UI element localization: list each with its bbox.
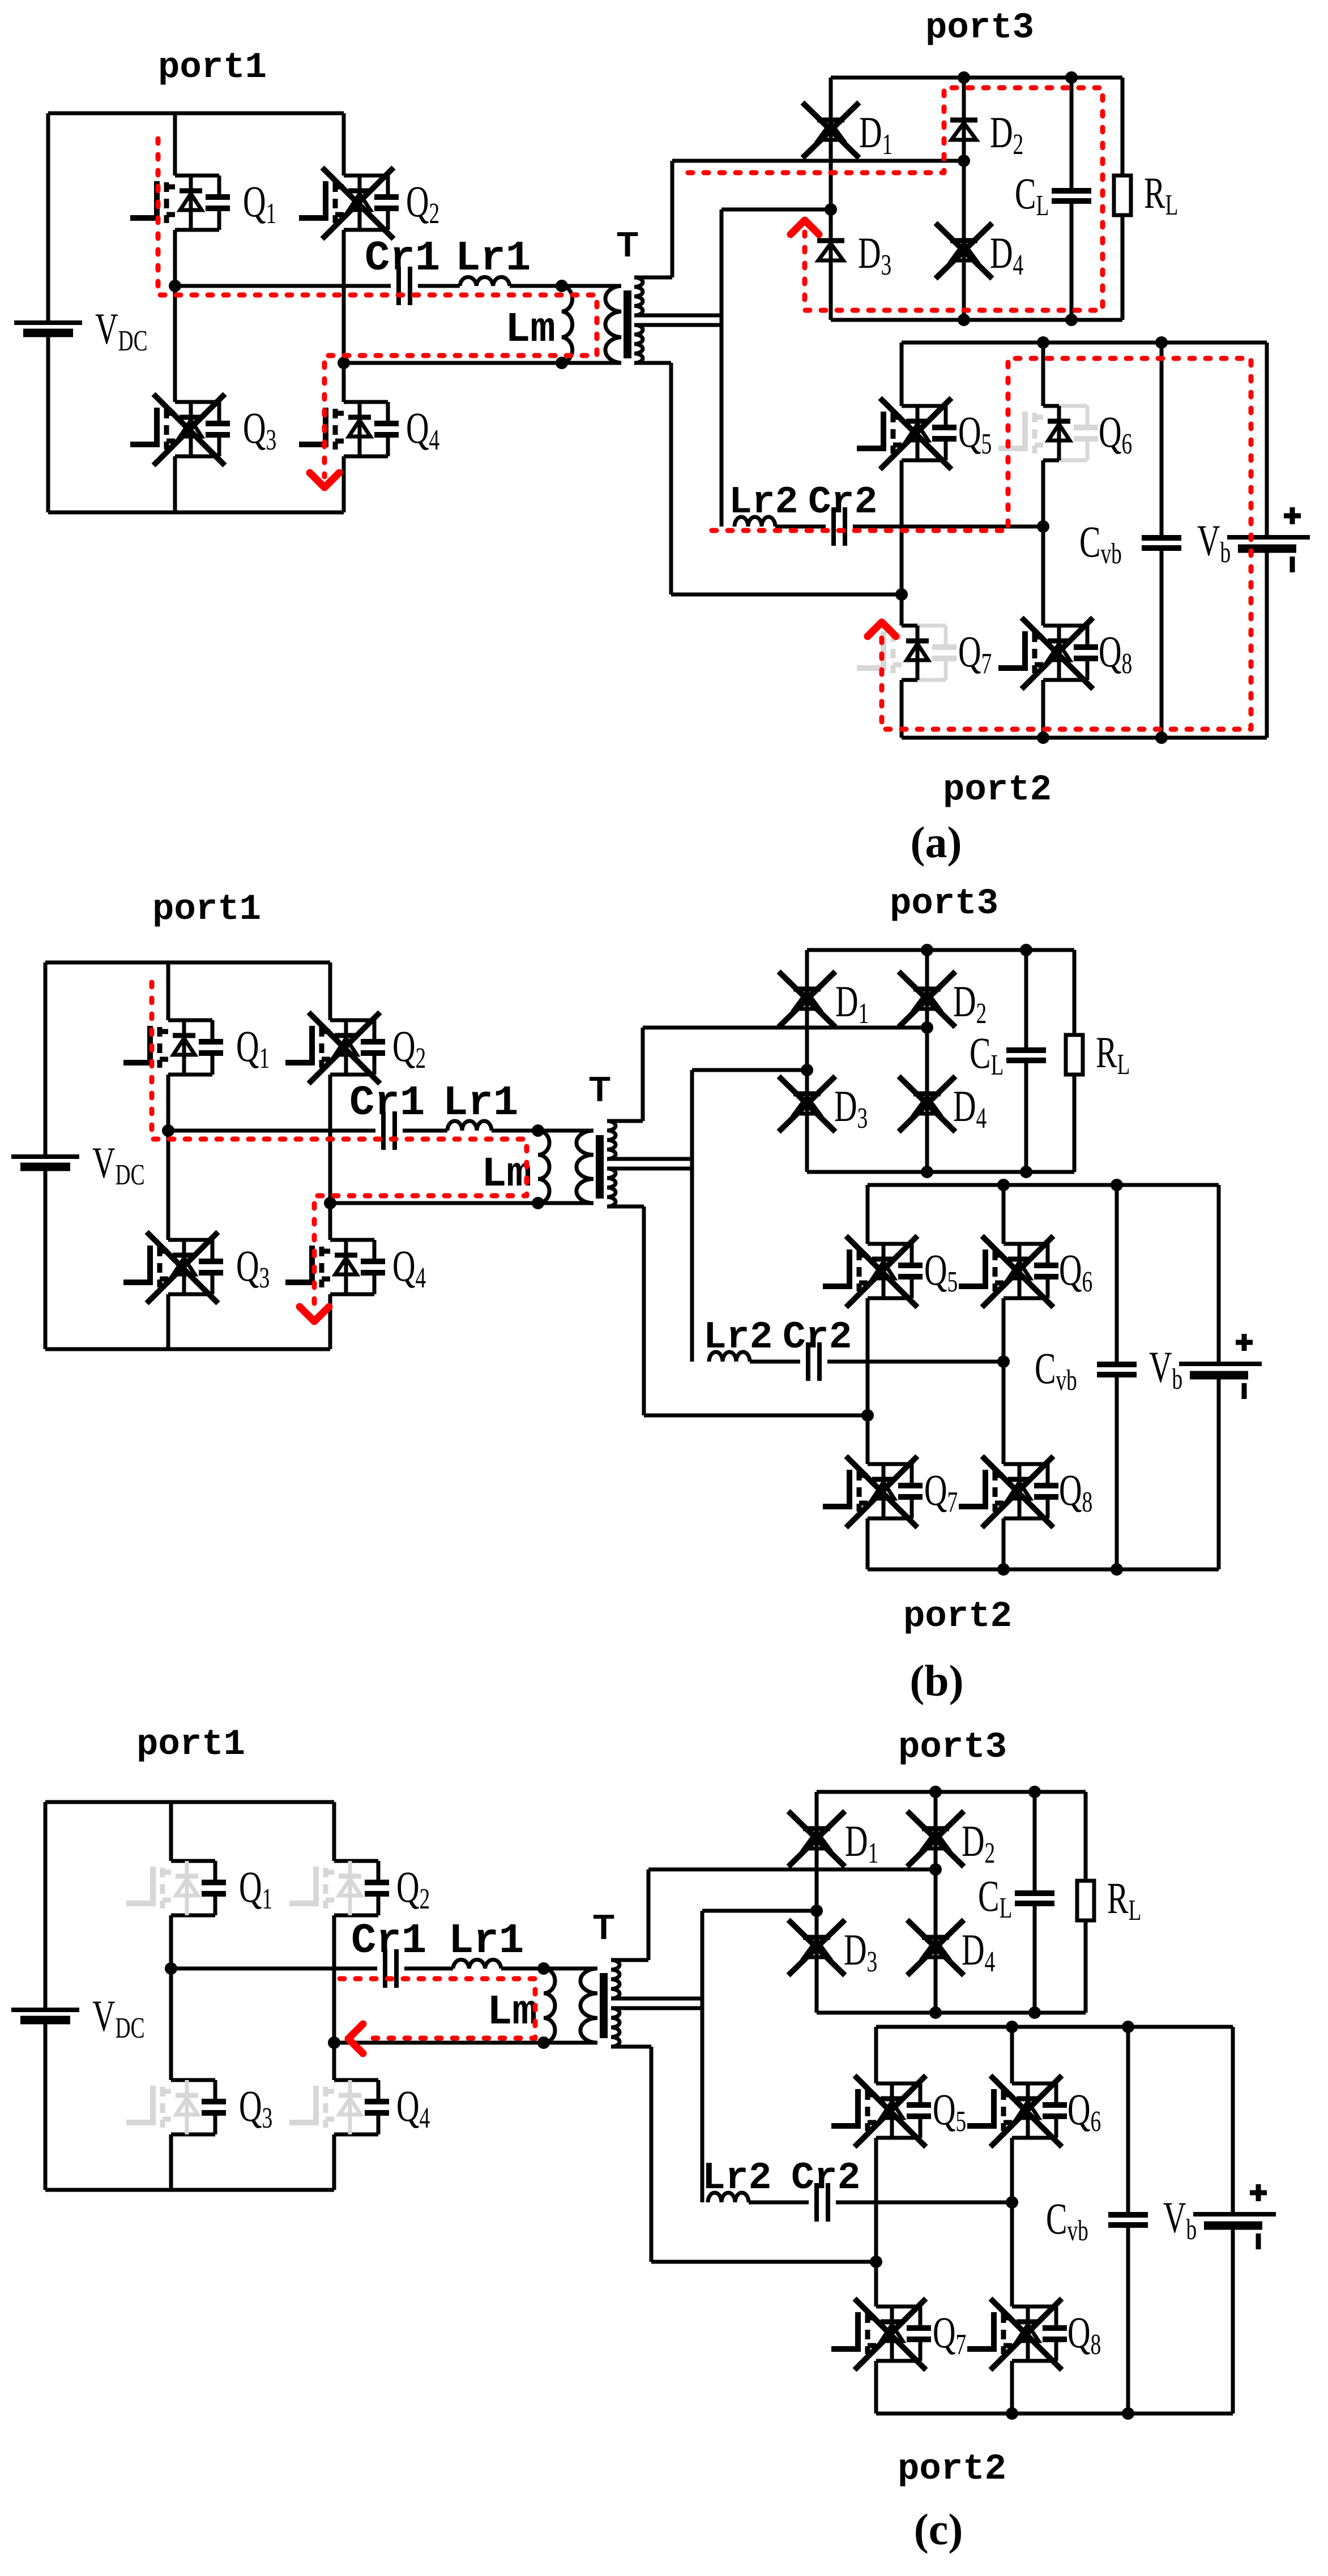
wire: port2 bottom rail (b) xyxy=(868,1568,1219,1572)
label T (a) xyxy=(617,225,638,264)
label D1 (a) xyxy=(859,108,893,160)
wire: bridge right leg (a) xyxy=(342,113,346,512)
node: port3 top rail / CL leg (a) xyxy=(1065,71,1078,84)
port1 label (c) xyxy=(136,1725,245,1765)
label D2 (b) xyxy=(953,977,987,1029)
wire: port1 top rail (c) xyxy=(45,1800,334,1804)
label Q6 (a) xyxy=(1099,407,1132,460)
svg-text:(a): (a) xyxy=(911,818,962,867)
label - terminal (a) xyxy=(1290,557,1295,572)
label VDC (b) xyxy=(92,1138,145,1191)
wire: VDC left branch lower (a) xyxy=(46,333,50,512)
wire: Lr2 to Cr2 (a) xyxy=(775,525,826,529)
svg-text:Cr2: Cr2 xyxy=(808,481,877,524)
label T (b) xyxy=(589,1070,610,1109)
node: D1-D3 leg AC input (b) xyxy=(801,1064,813,1076)
svg-text:Cr2: Cr2 xyxy=(791,2156,860,2200)
battery Vb (c) xyxy=(1193,2027,1276,2414)
wire: port2 leg Q5-Q7 (c) xyxy=(874,2027,878,2414)
inductor Lr2 (c) xyxy=(708,2193,749,2202)
node: port3 top rail / D2 leg (a) xyxy=(958,71,970,84)
capacitor Cr2 (c) xyxy=(817,2183,828,2222)
svg-text:T: T xyxy=(617,225,638,264)
label Cvb (a) xyxy=(1079,517,1122,570)
svg-text:Lr1: Lr1 xyxy=(449,1918,524,1965)
wire: Cr1 to Lr1 (c) xyxy=(404,1967,453,1971)
label Q6 (b) xyxy=(1059,1245,1092,1298)
wire: secondary2 bottom to port2 leg junction (a) xyxy=(634,363,902,594)
label Q2 (b) xyxy=(392,1021,426,1074)
transistor Q4 (a) xyxy=(299,402,399,456)
node: port2 bottom rail / Q8 leg (a) xyxy=(1037,731,1049,744)
label Lm (b) xyxy=(481,1151,532,1199)
resistor RL (b) xyxy=(1066,950,1083,1172)
wire: bridge right leg (c) xyxy=(332,1802,336,2190)
label D4 (b) xyxy=(953,1081,987,1134)
transistor Q2 (a) xyxy=(299,168,399,239)
label D2 (a) xyxy=(990,108,1023,160)
node: port2 bottom rail / Q8 leg (c) xyxy=(1006,2407,1018,2420)
port3 label (a) xyxy=(925,8,1034,49)
node: bridge mid-left (a) xyxy=(169,280,181,292)
transistor Q6 (a) xyxy=(998,406,1098,460)
transistor Q1 (a) xyxy=(130,176,230,230)
wire: VDC left branch upper (b) xyxy=(44,962,48,1157)
wire: bridge mid-left node to Cr1 (b) xyxy=(168,1129,375,1133)
wire: port2 top rail (a) xyxy=(902,341,1267,345)
capacitor Cr1 (b) xyxy=(383,1111,395,1150)
wire: Cr2 to Q6-Q8 leg (c) xyxy=(836,2201,1012,2205)
label Q3 (b) xyxy=(236,1241,270,1294)
port2 label (c) xyxy=(898,2449,1006,2490)
label T (c) xyxy=(593,1908,614,1947)
wire: port3 leg D1-D3 (a) xyxy=(829,78,833,320)
transformer T primary winding (a) xyxy=(605,286,621,363)
svg-text:port3: port3 xyxy=(890,884,998,925)
port3 label (c) xyxy=(898,1727,1007,1768)
transistor Q8 (b) xyxy=(959,1456,1058,1527)
label CL (b) xyxy=(970,1028,1004,1081)
node: bridge mid-right (b) xyxy=(324,1197,336,1209)
label Q3 (c) xyxy=(239,2081,272,2134)
transformer secondary winding 2 (c) xyxy=(611,2008,620,2047)
wire: port3 bottom rail (c) xyxy=(817,2011,1086,2015)
label Lr2 (c) xyxy=(702,2156,771,2200)
label Cr2 (b) xyxy=(783,1316,852,1359)
label Q4 (c) xyxy=(396,2081,430,2134)
wire: port2 leg Q6-Q8 (b) xyxy=(1002,1185,1006,1569)
wire: port3 leg D2-D4 (c) xyxy=(934,1792,938,2013)
wire: bridge left leg (a) xyxy=(173,113,177,512)
svg-text:port3: port3 xyxy=(898,1727,1007,1768)
transformer core (c) xyxy=(600,1973,608,2038)
node: port3 bottom rail / CL leg (c) xyxy=(1028,2006,1041,2019)
caption (b) xyxy=(909,1656,963,1705)
label VDC (c) xyxy=(92,1991,145,2044)
wire: shared vertical to port3/Lr2 (c) xyxy=(701,1911,704,2202)
svg-text:Cr2: Cr2 xyxy=(783,1316,852,1359)
diode D4 (c) xyxy=(907,1920,964,1975)
port3 label (b) xyxy=(890,884,998,925)
transistor Q7 (c) xyxy=(831,2299,931,2370)
label Cr2 (a) xyxy=(808,481,877,524)
label Q4 (a) xyxy=(406,403,439,456)
label Q3 (a) xyxy=(243,403,276,456)
wire: port2 bottom rail (a) xyxy=(902,736,1267,740)
transistor Q7 (b) xyxy=(823,1456,923,1527)
label Lr1 (b) xyxy=(443,1080,518,1127)
current path: port3 rectifier loop (a) xyxy=(688,88,1103,310)
svg-text:Cr1: Cr1 xyxy=(351,1918,426,1965)
current path: port1 loop Q1-Cr1-Lr1-Lm-Q4 (a) xyxy=(158,139,597,477)
node: primary top junction (a) xyxy=(556,280,568,292)
node: bridge mid-left (c) xyxy=(165,1962,177,1975)
diode D3 (c) xyxy=(788,1920,845,1975)
label Q7 (b) xyxy=(924,1465,958,1518)
label Lr2 (a) xyxy=(729,481,798,524)
svg-text:(c): (c) xyxy=(914,2505,963,2554)
caption (c) xyxy=(914,2505,963,2554)
node: port3 top rail / D2 leg (b) xyxy=(921,944,933,956)
transistor Q8 (a) xyxy=(998,618,1098,689)
diode D1 (b) xyxy=(779,972,835,1027)
label CL (a) xyxy=(1015,169,1049,221)
node: port3 bottom rail / D2 leg (a) xyxy=(958,314,970,326)
transistor Q2 (c) xyxy=(289,1861,389,1915)
label D4 (a) xyxy=(990,228,1023,281)
label Cvb (c) xyxy=(1046,2194,1088,2246)
node: D1-D3 leg AC input (a) xyxy=(825,203,837,216)
label Q6 (c) xyxy=(1067,2085,1101,2137)
node: primary bottom junction (b) xyxy=(532,1197,544,1209)
wire: bridge mid-right node to transformer primary bottom (c) xyxy=(334,2041,597,2045)
current path: port2 loop (a) xyxy=(712,358,1251,729)
label Cr2 (c) xyxy=(791,2156,860,2200)
label D2 (c) xyxy=(962,1816,995,1869)
wire: port2 leg Q5-Q7 (a) xyxy=(900,343,904,738)
wire: port3 leg D1-D3 (c) xyxy=(815,1792,819,2013)
wire: to port3 D1-D3 junction (a) xyxy=(721,208,831,212)
svg-text:Cr1: Cr1 xyxy=(365,235,440,283)
wire: port3 leg D2-D4 (a) xyxy=(962,78,966,320)
current path arrow down (b) xyxy=(300,1307,329,1321)
wire: bridge mid-right node to transformer primary bottom (b) xyxy=(330,1201,593,1205)
transformer secondary winding 1 (c) xyxy=(611,1960,620,1999)
label RL (b) xyxy=(1096,1028,1130,1080)
capacitor Cvb (b) xyxy=(1097,1185,1137,1569)
label Q4 (b) xyxy=(392,1241,426,1294)
wire: secondary1 top to port3 D2 junction (b) xyxy=(607,1028,927,1121)
wire: Lr2 to Cr2 (c) xyxy=(749,2201,809,2205)
label Vb (b) xyxy=(1149,1342,1182,1395)
battery VDC (a) xyxy=(14,323,82,333)
node: port2 top rail / Cvb leg (c) xyxy=(1122,2021,1134,2033)
wire: port2 top rail (c) xyxy=(876,2025,1233,2029)
node: D2 leg AC input (b) xyxy=(921,1021,933,1034)
transformer core (b) xyxy=(596,1135,604,1199)
svg-text:port2: port2 xyxy=(903,1597,1012,1637)
node: port2 top rail / Cvb leg (a) xyxy=(1155,336,1168,349)
svg-text:Lr2: Lr2 xyxy=(702,2156,771,2200)
transistor Q4 (c) xyxy=(289,2080,389,2134)
label Q8 (c) xyxy=(1067,2308,1101,2360)
wire: Cr2 to Q6-Q8 leg (a) xyxy=(853,525,1043,529)
label Q5 (c) xyxy=(933,2085,966,2137)
label D1 (b) xyxy=(835,977,869,1029)
wire: secondary1 bottom stub (a) xyxy=(634,314,721,318)
label + terminal (b) xyxy=(1236,1334,1253,1351)
current path arrow up port2 (a) xyxy=(868,622,896,636)
svg-text:Lm: Lm xyxy=(505,306,556,354)
battery Vb (a) xyxy=(1227,343,1310,738)
wire: secondary1 bottom stub (b) xyxy=(607,1157,692,1161)
node: port3 bottom rail / CL leg (b) xyxy=(1020,1166,1032,1178)
label Q2 (a) xyxy=(406,177,439,229)
transistor Q6 (c) xyxy=(967,2076,1067,2147)
wire: secondary1 top to port3 D2 junction (c) xyxy=(611,1869,936,1960)
node: port3 top rail / CL leg (b) xyxy=(1020,944,1032,956)
node: port3 bottom rail / D2 leg (c) xyxy=(929,2006,942,2019)
current path arrow down (a) xyxy=(310,473,339,487)
port2 label (a) xyxy=(943,770,1052,811)
label Q5 (a) xyxy=(958,407,992,460)
transistor Q5 (c) xyxy=(831,2076,931,2147)
node: port3 top rail / D2 leg (c) xyxy=(929,1786,942,1798)
label - terminal (b) xyxy=(1242,1383,1247,1399)
transistor Q4 (b) xyxy=(285,1240,385,1294)
svg-text:port2: port2 xyxy=(943,770,1052,811)
node: D2 leg AC input (a) xyxy=(958,155,970,167)
diode D3 (a) xyxy=(817,241,844,260)
inductor Lr1 (b) xyxy=(447,1121,492,1131)
label D4 (c) xyxy=(962,1925,995,1978)
node: bridge mid-right (a) xyxy=(338,357,350,369)
svg-text:port1: port1 xyxy=(152,889,261,930)
svg-text:port1: port1 xyxy=(136,1725,245,1765)
diode D1 (a) xyxy=(802,102,859,158)
node: port2 top rail / Q6 leg (b) xyxy=(997,1179,1010,1191)
node: Q5-Q7 mid junction (c) xyxy=(870,2256,882,2268)
label Q1 (a) xyxy=(243,177,276,229)
wire: bridge left leg (c) xyxy=(169,1802,173,2190)
node: bridge mid-left (b) xyxy=(162,1124,174,1137)
wire: shared vertical to port3/Lr2 (b) xyxy=(690,1070,694,1362)
transistor Q5 (b) xyxy=(823,1236,923,1307)
wire: bridge right leg (b) xyxy=(328,962,332,1349)
node: port2 bottom rail / Cvb leg (a) xyxy=(1155,731,1168,744)
wire: port3 bottom rail (a) xyxy=(831,318,1122,322)
label Q5 (b) xyxy=(924,1245,958,1298)
transformer secondary winding 2 (a) xyxy=(634,325,643,363)
resistor RL (a) xyxy=(1114,78,1131,320)
transformer T primary winding (c) xyxy=(580,1969,597,2043)
wire: shared vertical to port3/Lr2 (a) xyxy=(720,209,724,527)
svg-text:port1: port1 xyxy=(158,48,267,88)
wire: port3 leg D1-D3 (b) xyxy=(805,950,809,1172)
wire: secondary2 top stub (b) xyxy=(607,1167,692,1171)
wire: Lr1 to transformer primary top (a) xyxy=(510,284,621,288)
capacitor CL (c) xyxy=(1015,1792,1054,2013)
caption (a) xyxy=(911,818,962,867)
label Cr1 (c) xyxy=(351,1918,426,1965)
svg-text:(b): (b) xyxy=(909,1656,963,1705)
label Q1 (c) xyxy=(239,1862,272,1915)
node: Q6-Q8 mid junction (a) xyxy=(1037,520,1049,533)
diode D4 (a) xyxy=(936,223,992,279)
svg-text:Lr1: Lr1 xyxy=(443,1080,518,1127)
transistor Q1 (c) xyxy=(126,1861,226,1915)
current path: port1 loop (b) xyxy=(152,982,527,1313)
current path: resonant tank loop (c) xyxy=(340,1979,535,2038)
wire: to port3 D1-D3 junction (c) xyxy=(702,1909,817,1913)
label Q8 (a) xyxy=(1099,627,1132,679)
node: D1-D3 leg AC input (c) xyxy=(810,1905,823,1917)
transformer core (a) xyxy=(624,290,631,358)
transistor Q6 (b) xyxy=(959,1236,1058,1307)
label - terminal (c) xyxy=(1256,2233,1261,2249)
wire: Cr1 to Lr1 (a) xyxy=(418,284,460,288)
wire: port2 leg Q5-Q7 (b) xyxy=(866,1185,870,1569)
transformer secondary winding 1 (b) xyxy=(607,1121,616,1159)
wire: port1 bottom rail (b) xyxy=(45,1347,330,1351)
capacitor Cr2 (b) xyxy=(808,1342,819,1381)
node: Q6-Q8 mid junction (b) xyxy=(997,1355,1010,1368)
battery Vb (b) xyxy=(1179,1185,1262,1569)
node: port2 bottom rail / Cvb leg (b) xyxy=(1111,1563,1123,1576)
wire: Lr1 to transformer primary top (b) xyxy=(492,1129,593,1133)
diode D2 (c) xyxy=(907,1811,964,1867)
label Cvb (b) xyxy=(1035,1343,1077,1396)
wire: bridge mid-left node to Cr1 (a) xyxy=(175,284,391,288)
svg-text:Lm: Lm xyxy=(487,1989,537,2036)
capacitor Cr1 (a) xyxy=(399,267,410,305)
label + terminal (a) xyxy=(1284,507,1301,524)
svg-text:Lr2: Lr2 xyxy=(729,481,798,524)
transformer secondary winding 2 (b) xyxy=(607,1169,616,1206)
node: Q5-Q7 mid junction (a) xyxy=(895,588,908,601)
wire: Lr2 to Cr2 (b) xyxy=(750,1360,800,1364)
node: Q5-Q7 mid junction (b) xyxy=(861,1409,874,1422)
svg-text:T: T xyxy=(593,1908,614,1947)
wire: secondary1 top to port3 D2 junction (a) xyxy=(634,161,964,277)
node: primary bottom junction (c) xyxy=(537,2036,550,2049)
inductor Lm (b) xyxy=(538,1131,549,1203)
transistor Q8 (c) xyxy=(967,2299,1067,2370)
battery VDC (c) xyxy=(11,2010,79,2020)
wire: port3 top rail (c) xyxy=(817,1790,1086,1794)
diode D2 (b) xyxy=(899,972,955,1027)
capacitor Cr1 (c) xyxy=(385,1949,396,1988)
wire: port3 bottom rail (b) xyxy=(807,1170,1074,1174)
transistor Q7 (a) xyxy=(857,626,956,680)
capacitor Cvb (a) xyxy=(1142,343,1181,738)
current path arrow left (c) xyxy=(348,2024,363,2053)
label Q7 (a) xyxy=(958,627,992,679)
label Lm (c) xyxy=(487,1989,537,2036)
label Lr2 (b) xyxy=(703,1316,772,1359)
port1 label (b) xyxy=(152,889,261,930)
wire: secondary2 top stub (a) xyxy=(634,323,721,327)
inductor Lm (c) xyxy=(544,1969,555,2043)
node: primary top junction (b) xyxy=(532,1124,544,1137)
label Vb (a) xyxy=(1197,516,1231,568)
wire: Lr1 to transformer primary top (c) xyxy=(501,1967,597,1971)
wire: port1 bottom rail (a) xyxy=(48,511,344,515)
wire: port3 leg D2-D4 (b) xyxy=(925,950,929,1172)
transistor Q5 (a) xyxy=(857,398,956,469)
label Cr1 (b) xyxy=(349,1080,425,1127)
label Q8 (b) xyxy=(1059,1465,1092,1518)
diode D1 (c) xyxy=(788,1811,845,1867)
label Q1 (b) xyxy=(236,1021,270,1074)
port2 label (b) xyxy=(903,1597,1012,1637)
transistor Q2 (b) xyxy=(285,1012,385,1084)
wire: VDC left branch lower (c) xyxy=(44,2020,48,2190)
wire: Cr1 to Lr1 (b) xyxy=(403,1129,447,1133)
wire: bridge mid-left node to Cr1 (c) xyxy=(171,1967,377,1971)
transistor Q3 (b) xyxy=(123,1232,223,1303)
label CL (c) xyxy=(978,1871,1012,1924)
wire: secondary1 bottom stub (c) xyxy=(611,1997,702,2001)
node: port3 top rail / CL leg (c) xyxy=(1028,1786,1041,1798)
capacitor CL (a) xyxy=(1052,78,1091,320)
transistor Q3 (c) xyxy=(126,2080,226,2134)
wire: port2 top rail (b) xyxy=(868,1183,1219,1187)
wire: bridge mid-right node to transformer primary bottom (a) xyxy=(344,361,621,365)
label VDC (a) xyxy=(95,304,148,357)
label Lr1 (a) xyxy=(455,235,531,283)
transformer T primary winding (b) xyxy=(577,1131,593,1203)
capacitor CL (b) xyxy=(1006,950,1046,1172)
wire: Cr2 to Q6-Q8 leg (b) xyxy=(827,1360,1004,1364)
transformer secondary winding 1 (a) xyxy=(634,277,643,315)
inductor Lr2 (a) xyxy=(735,517,775,527)
label D3 (b) xyxy=(834,1081,868,1134)
port1 label (a) xyxy=(158,48,267,88)
label Q7 (c) xyxy=(933,2308,966,2360)
current path arrow up port3 (a) xyxy=(791,220,819,234)
inductor Lr1 (a) xyxy=(460,277,510,286)
wire: bridge left leg (b) xyxy=(166,962,170,1349)
wire: port2 leg Q6-Q8 (c) xyxy=(1010,2027,1014,2414)
wire: port2 bottom rail (c) xyxy=(876,2412,1233,2416)
label RL (c) xyxy=(1107,1873,1141,1926)
label Lm (a) xyxy=(505,306,556,354)
transistor Q3 (a) xyxy=(130,394,230,465)
node: Q6-Q8 mid junction (c) xyxy=(1006,2196,1018,2209)
transistor Q1 (b) xyxy=(123,1020,223,1075)
svg-text:T: T xyxy=(589,1070,610,1109)
wire: port2 leg Q6-Q8 (a) xyxy=(1041,343,1045,738)
wire: to port3 D1-D3 junction (b) xyxy=(692,1068,807,1072)
label D3 (c) xyxy=(844,1925,877,1978)
node: port2 top rail / Q6 leg (c) xyxy=(1006,2021,1018,2033)
label D1 (c) xyxy=(845,1816,878,1869)
diode D4 (b) xyxy=(899,1076,955,1132)
wire: port1 top rail (b) xyxy=(45,961,330,965)
node: port3 bottom rail / D2 leg (b) xyxy=(921,1166,933,1178)
node: bridge mid-right (c) xyxy=(328,2036,340,2049)
wire: secondary2 top stub (c) xyxy=(611,2006,702,2010)
capacitor Cvb (c) xyxy=(1108,2027,1148,2414)
wire: VDC left branch lower (b) xyxy=(44,1167,48,1349)
svg-text:Lr1: Lr1 xyxy=(455,235,531,283)
svg-text:port2: port2 xyxy=(898,2449,1006,2490)
label RL (a) xyxy=(1144,168,1178,221)
wire: port3 top rail (b) xyxy=(807,948,1074,952)
wire: VDC left branch upper (c) xyxy=(44,1802,48,2010)
svg-text:Cr1: Cr1 xyxy=(349,1080,425,1127)
